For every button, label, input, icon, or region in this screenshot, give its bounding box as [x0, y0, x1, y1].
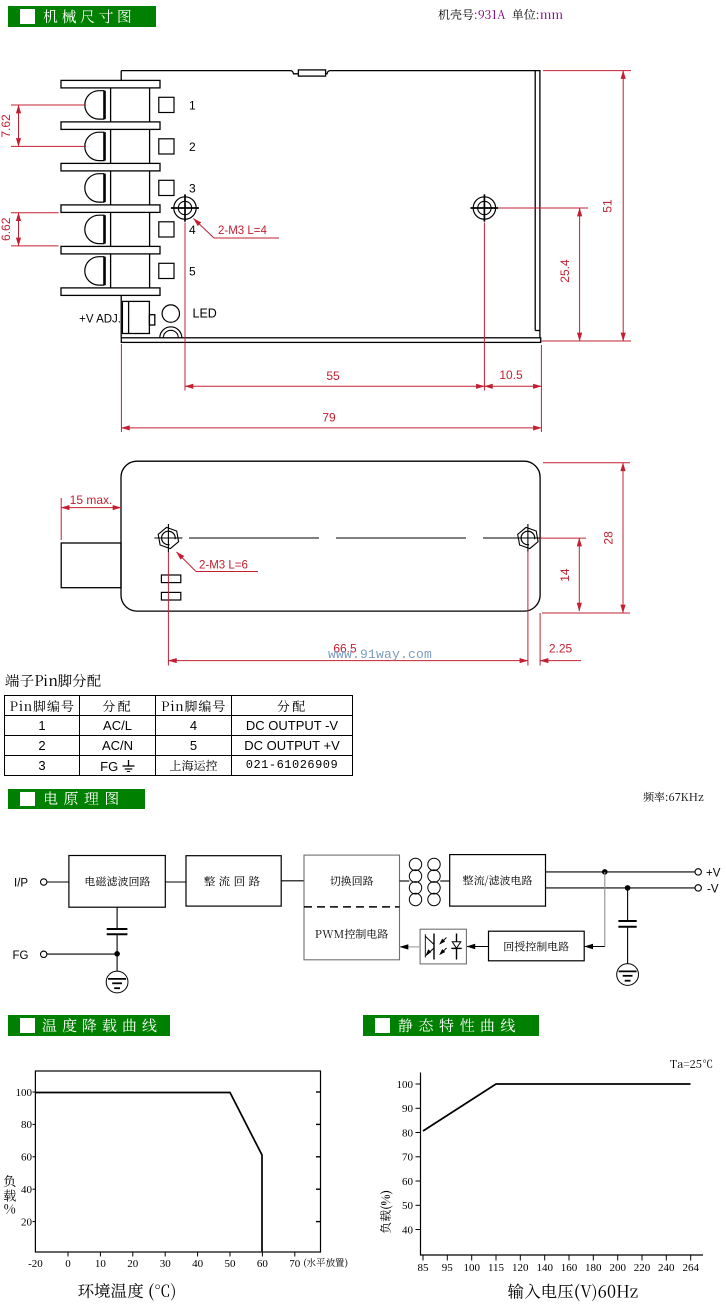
- svg-text:www.91way.com: www.91way.com: [328, 647, 432, 662]
- svg-text:+V ADJ.: +V ADJ.: [79, 314, 121, 326]
- svg-text:输入电压(V)60Hz: 输入电压(V)60Hz: [508, 1279, 638, 1303]
- x axis labels: [28, 1258, 301, 1270]
- svg-text:70: 70: [289, 1258, 301, 1270]
- wire EMI filter to rectifier: [165, 881, 186, 883]
- svg-text:3: 3: [189, 181, 196, 195]
- svg-text:30: 30: [160, 1258, 172, 1270]
- bottom flange bar: [121, 338, 540, 343]
- svg-text:200: 200: [609, 1262, 626, 1274]
- case number label: [438, 6, 563, 23]
- transformer T1 primary winding: [409, 858, 421, 906]
- chassis screw hole left 2-M3: [171, 194, 199, 221]
- svg-text:51: 51: [601, 199, 615, 213]
- wire -V rail: [546, 887, 696, 889]
- svg-text:20: 20: [127, 1258, 139, 1270]
- block: EMI filter 电磁滤波回路: [69, 856, 165, 908]
- vent slot 2: [161, 592, 180, 600]
- terminal block bar 1: [61, 80, 160, 88]
- side view terminal block protrusion: [61, 543, 121, 588]
- dim 14 lines: [540, 537, 586, 539]
- svg-text:2-M3 L=6: 2-M3 L=6: [199, 560, 248, 572]
- svg-text:140: 140: [536, 1262, 553, 1274]
- pin 3 square: [159, 180, 174, 195]
- dim 66.5 extension lines: [167, 552, 169, 666]
- svg-text:PWM控制电路: PWM控制电路: [315, 926, 388, 942]
- svg-text:79: 79: [322, 410, 336, 424]
- y axis ticks left: [33, 1092, 37, 1222]
- LED indicator: [162, 305, 179, 322]
- svg-text:Ta=25℃: Ta=25℃: [670, 1056, 713, 1072]
- terminal block bar 2: [61, 122, 160, 129]
- wire transformer to output rectifier: [440, 880, 450, 882]
- optocoupler LED: [456, 934, 458, 943]
- section header: 电原理图: [8, 789, 145, 809]
- svg-text:LED: LED: [193, 307, 217, 321]
- svg-text:100: 100: [463, 1262, 480, 1274]
- svg-text:60: 60: [257, 1258, 269, 1270]
- wire I/P to EMI filter: [47, 881, 69, 883]
- wire rectifier to switching: [281, 880, 304, 882]
- svg-text:60: 60: [21, 1152, 33, 1164]
- vent slot 1: [161, 575, 180, 583]
- dim 2.25 lines: [539, 613, 541, 666]
- svg-text:55: 55: [326, 369, 340, 383]
- node -V output terminal: [695, 885, 701, 891]
- wire junction to ground: [116, 954, 118, 971]
- dim 28 lines: [543, 462, 630, 464]
- side screw right: [514, 524, 542, 552]
- svg-text:2.25: 2.25: [549, 642, 573, 656]
- pin 5 square: [159, 263, 174, 278]
- latch rectangle on top edge: [298, 70, 325, 76]
- dim 25.4 lines: [499, 207, 588, 209]
- block: feedback control 回授控制电路: [489, 931, 585, 961]
- svg-text:5: 5: [189, 264, 196, 278]
- dim 15 max lines: [60, 498, 62, 540]
- svg-text:115: 115: [488, 1262, 505, 1274]
- svg-text:120: 120: [512, 1262, 529, 1274]
- y axis labels: [16, 1087, 33, 1229]
- terminal block bar 5: [61, 246, 160, 254]
- pin 1 square: [159, 97, 174, 112]
- terminal screw 5: [85, 257, 105, 285]
- svg-text:240: 240: [658, 1262, 675, 1274]
- pin 4 square: [159, 222, 174, 237]
- svg-text:负载(%): 负载(%): [377, 1190, 394, 1234]
- terminal screw 3: [85, 174, 105, 202]
- derating chart plot frame: [35, 1071, 320, 1252]
- y axis title 负载%: [3, 1171, 16, 1218]
- wire +V rail: [546, 871, 696, 873]
- junction FG/cap: [114, 951, 120, 957]
- block: switching + PWM control (dashed split): [304, 855, 400, 960]
- terminal block bar 3: [61, 163, 160, 171]
- svg-text:90: 90: [402, 1103, 414, 1115]
- leader 2-M3 L=4: [194, 219, 215, 239]
- node +V output terminal: [695, 869, 701, 875]
- svg-text:100: 100: [397, 1079, 414, 1091]
- svg-text:7.62: 7.62: [0, 114, 13, 138]
- chassis screw hole right 2-M3: [470, 194, 498, 221]
- optocoupler phototransistor: [433, 934, 435, 960]
- junction on +V rail: [602, 869, 608, 875]
- case top edge with notch: [121, 71, 540, 74]
- svg-text:50: 50: [402, 1200, 414, 1212]
- static characteristic curve: [423, 1084, 691, 1131]
- svg-text:180: 180: [585, 1262, 602, 1274]
- svg-text:100: 100: [16, 1087, 33, 1099]
- static characteristic axes: [421, 1073, 704, 1256]
- svg-text:I/P: I/P: [14, 878, 28, 890]
- svg-text:2-M3 L=4: 2-M3 L=4: [218, 225, 268, 237]
- svg-text:80: 80: [402, 1127, 414, 1139]
- block: rectifier 整流回路: [186, 856, 281, 906]
- block: output rectifier/filter 整流/滤波电路: [450, 855, 546, 907]
- svg-text:电磁滤波回路: 电磁滤波回路: [85, 874, 151, 890]
- wire optocoupler to PWM: [400, 946, 421, 948]
- svg-text:28: 28: [601, 531, 615, 545]
- pin assignment table: [4, 695, 353, 776]
- wire FG to junction: [47, 953, 117, 955]
- svg-text:20: 20: [21, 1216, 33, 1228]
- section header: 温度降载曲线: [8, 1015, 170, 1036]
- terminal pin assignment title: [5, 670, 101, 691]
- dim 51 lines: [543, 70, 631, 72]
- center dashed line: [189, 537, 516, 539]
- transformer T1 secondary winding: [428, 858, 440, 906]
- frequency label: [643, 789, 704, 805]
- svg-text:6.62: 6.62: [0, 217, 13, 241]
- terminal screw 1: [85, 91, 105, 119]
- y axis labels: [397, 1079, 414, 1237]
- svg-text:25.4: 25.4: [558, 259, 572, 283]
- capacitor C2 on output: [627, 888, 629, 921]
- svg-text:40: 40: [192, 1258, 204, 1270]
- wire feedback from +V junction: [604, 872, 606, 947]
- pin 2 square: [159, 139, 174, 154]
- section header: 静态特性曲线: [363, 1015, 539, 1036]
- svg-text:整流回路: 整流回路: [204, 874, 264, 890]
- svg-text:-20: -20: [28, 1258, 43, 1270]
- dim 55 / 10.5 extension and lines: [184, 223, 186, 391]
- svg-text:85: 85: [418, 1262, 430, 1274]
- case left edge segments: [120, 71, 122, 81]
- svg-text:60: 60: [402, 1176, 414, 1188]
- x axis ticks: [68, 1252, 295, 1257]
- svg-text:切换回路: 切换回路: [330, 873, 374, 889]
- ground (FG side): [106, 971, 128, 993]
- leader 2-M3 L=6: [177, 552, 197, 572]
- dim 79 extension and line: [540, 345, 542, 432]
- svg-text:14: 14: [558, 568, 572, 582]
- svg-text:40: 40: [402, 1224, 414, 1236]
- y axis ticks right inner: [316, 1092, 321, 1222]
- svg-text:160: 160: [561, 1262, 578, 1274]
- svg-text:%: %: [4, 1199, 16, 1218]
- svg-text:环境温度 (℃): 环境温度 (℃): [78, 1278, 177, 1302]
- case right edge double line: [534, 71, 536, 331]
- dim 7.62 extension lines: [11, 104, 86, 106]
- svg-text:0: 0: [65, 1258, 71, 1270]
- y axis ticks: [416, 1084, 421, 1230]
- svg-text:264: 264: [682, 1262, 699, 1274]
- terminal block bar 4: [61, 205, 160, 213]
- optocoupler U1: [420, 929, 466, 964]
- wire switching to transformer: [400, 880, 410, 882]
- svg-text:2: 2: [189, 140, 196, 154]
- svg-text:FG: FG: [13, 950, 29, 962]
- section header: 机械尺寸图: [8, 6, 156, 27]
- terminal block column lines: [110, 84, 112, 292]
- terminal screw 2: [85, 132, 105, 160]
- svg-text:回授控制电路: 回授控制电路: [503, 939, 569, 955]
- svg-text:70: 70: [402, 1152, 414, 1164]
- capacitor C1 on FG line: [116, 907, 118, 929]
- optocoupler light arrows: [441, 938, 447, 944]
- svg-text:220: 220: [634, 1262, 651, 1274]
- side screw left: [154, 524, 182, 552]
- x axis labels: [418, 1262, 700, 1274]
- svg-text:4: 4: [189, 223, 196, 237]
- svg-text:整流/滤波电路: 整流/滤波电路: [463, 873, 533, 889]
- svg-text:1: 1: [189, 98, 196, 112]
- junction on -V rail: [625, 885, 631, 891]
- +V ADJ potentiometer: [122, 301, 154, 333]
- svg-text:(水平放置): (水平放置): [303, 1255, 348, 1269]
- terminal block bar 6: [61, 288, 160, 296]
- flange mounting hole arcs: [160, 327, 182, 338]
- svg-text:10.5: 10.5: [499, 368, 523, 382]
- svg-text:40: 40: [21, 1184, 33, 1196]
- terminal screw 4: [85, 215, 105, 243]
- svg-text:50: 50: [225, 1258, 237, 1270]
- dim 6.62 extension lines: [11, 212, 59, 214]
- svg-text:80: 80: [21, 1119, 33, 1131]
- svg-text:10: 10: [95, 1258, 107, 1270]
- svg-text:15 max.: 15 max.: [70, 493, 113, 507]
- ground (output side): [617, 964, 639, 986]
- x axis ticks: [423, 1255, 691, 1261]
- svg-text:+V: +V: [706, 868, 721, 880]
- svg-text:95: 95: [442, 1262, 454, 1274]
- side view body: [121, 461, 540, 611]
- svg-text:-V: -V: [707, 884, 719, 896]
- derating curve: [35, 1093, 262, 1252]
- wire feedback to optocoupler: [466, 946, 488, 948]
